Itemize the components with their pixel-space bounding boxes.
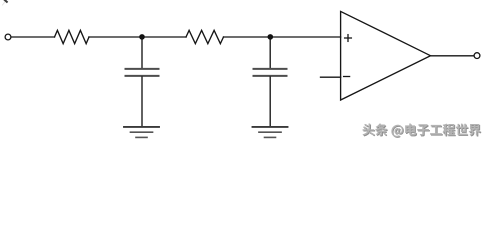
input terminal [5,34,11,40]
node B junction dot [268,34,274,40]
output terminal [474,53,480,59]
wire input to R1 [11,36,54,38]
wire inverting input stub [321,76,341,78]
wire R2 to op-amp [224,36,341,38]
op-amp minus label [344,76,350,78]
wire node B to C2 [269,37,271,68]
ground G2 [253,127,288,137]
capacitor C2 [254,69,287,76]
corner artifact [3,1,6,5]
capacitor C1 [126,69,159,76]
watermark 头条 @电子工程世界 [362,123,481,137]
wire node A to C1 [141,37,143,68]
ground G1 [124,127,159,137]
wire C2 to ground [269,77,271,126]
wire op-amp output [431,55,474,57]
node A junction dot [139,34,145,40]
wire C1 to ground [141,77,143,126]
resistor R1 [55,30,90,43]
op-amp plus label [345,35,352,42]
wire R1 to R2 [89,36,186,38]
resistor R2 [186,30,224,43]
op-amp U1 [341,11,431,100]
